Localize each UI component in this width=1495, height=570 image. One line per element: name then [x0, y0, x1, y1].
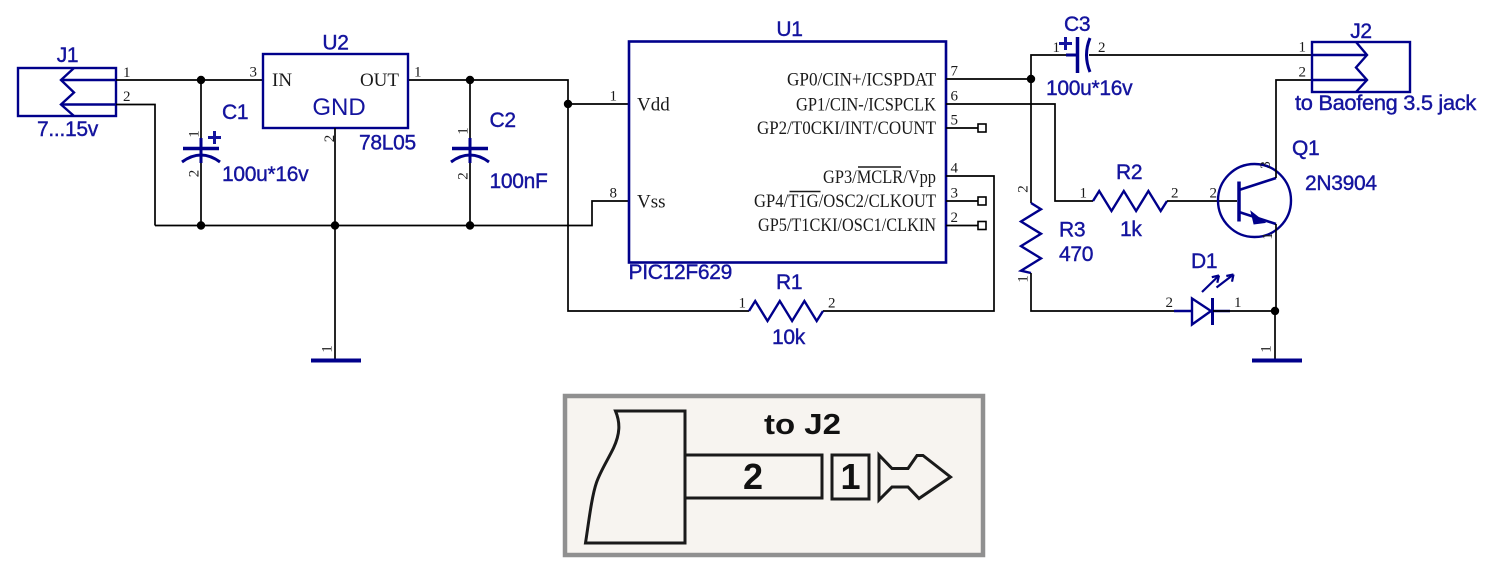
svg-text:1: 1: [1234, 295, 1242, 311]
svg-text:D1: D1: [1191, 250, 1217, 273]
svg-text:2: 2: [1171, 186, 1179, 202]
node junction J1/C1 top: [197, 76, 205, 84]
svg-text:2N3904: 2N3904: [1305, 172, 1377, 195]
jack tip: [879, 455, 951, 500]
svg-text:10k: 10k: [772, 326, 806, 349]
svg-text:1: 1: [456, 127, 472, 135]
svg-text:R2: R2: [1116, 161, 1142, 184]
wire branch to Vdd: [568, 103, 629, 105]
svg-text:GP0/CIN+/ICSPDAT: GP0/CIN+/ICSPDAT: [787, 70, 936, 91]
svg-text:Q1: Q1: [1292, 137, 1319, 160]
transistor Q1: [1218, 137, 1319, 237]
svg-text:1: 1: [1016, 275, 1032, 283]
LED D1: [1174, 250, 1234, 325]
svg-text:IN: IN: [272, 70, 292, 91]
svg-text:2: 2: [743, 456, 763, 497]
capacitor C2: [451, 80, 516, 226]
jack sleeve segment 2: [685, 455, 822, 498]
wire U1 pin6: [946, 104, 1093, 201]
wire U1 pin2 no-connect: [946, 225, 978, 227]
svg-text:Vdd: Vdd: [637, 95, 670, 116]
svg-text:R3: R3: [1059, 219, 1085, 242]
wire U1 pin7: [946, 78, 1031, 80]
ground symbol right: [1252, 359, 1302, 363]
node junction pin7/C3/R3: [1027, 75, 1035, 83]
resistor R2: [1093, 161, 1167, 211]
wire J1.1 to U2.IN: [116, 79, 263, 81]
svg-text:1: 1: [739, 296, 747, 312]
svg-text:1k: 1k: [1120, 218, 1142, 241]
svg-text:2: 2: [123, 89, 131, 105]
inset box jack drawing: [565, 396, 983, 555]
wire R3 top: [1030, 79, 1032, 203]
svg-text:3: 3: [951, 186, 959, 202]
svg-text:1: 1: [1053, 40, 1061, 56]
svg-text:2: 2: [456, 172, 472, 180]
svg-text:2: 2: [1166, 295, 1174, 311]
wire to capacitor C3: [1031, 55, 1073, 79]
svg-text:GP2/T0CKI/INT/COUNT: GP2/T0CKI/INT/COUNT: [757, 118, 936, 139]
svg-text:3: 3: [250, 65, 258, 81]
svg-text:2: 2: [1016, 185, 1032, 193]
svg-text:8: 8: [610, 186, 618, 202]
jack ring segment 1: [832, 455, 869, 499]
svg-text:R1: R1: [776, 271, 802, 294]
svg-text:GP5/T1CKI/OSC1/CLKIN: GP5/T1CKI/OSC1/CLKIN: [758, 215, 936, 236]
svg-text:100nF: 100nF: [490, 170, 548, 193]
svg-text:2: 2: [187, 170, 203, 178]
svg-text:J2: J2: [1350, 20, 1372, 43]
wire U1 pin5 no-connect: [946, 127, 978, 129]
wire D1 to emitter node: [1213, 310, 1275, 312]
IC U1 PIC12F629: [629, 18, 946, 263]
node junction Vdd branch: [564, 100, 572, 108]
jack plug body: [586, 411, 686, 543]
svg-text:100u*16v: 100u*16v: [222, 163, 309, 186]
node junction C2 top: [466, 76, 474, 84]
wire Q1 emitter down: [1275, 224, 1277, 311]
svg-text:GP1/CIN-/ICSPCLK: GP1/CIN-/ICSPCLK: [796, 95, 936, 116]
svg-text:1: 1: [123, 65, 131, 81]
wire R3 bottom to D1: [1031, 273, 1190, 311]
svg-text:to Baofeng 3.5 jack: to Baofeng 3.5 jack: [1295, 92, 1477, 115]
connector J1: [18, 44, 116, 116]
wire R2 to Q1 base: [1167, 200, 1237, 202]
svg-text:4: 4: [951, 161, 959, 177]
regulator U2: [263, 32, 408, 129]
node junction emitter/D1/ground: [1271, 307, 1279, 315]
svg-text:J1: J1: [57, 44, 79, 67]
connector J2: [1312, 20, 1410, 92]
svg-text:PIC12F629: PIC12F629: [629, 261, 733, 284]
svg-text:5: 5: [951, 113, 959, 129]
ground symbol left: [311, 359, 361, 363]
node junction C2 bottom: [466, 221, 474, 229]
capacitor C3: [1059, 13, 1090, 73]
capacitor C1: [182, 80, 248, 226]
svg-text:C3: C3: [1064, 13, 1090, 36]
wire U2 GND pin down: [334, 128, 336, 361]
svg-text:2: 2: [1210, 186, 1218, 202]
wire U2.OUT to Vdd and R1: [409, 80, 749, 311]
wire J1.2 down to ground rail: [116, 105, 155, 226]
svg-text:1: 1: [840, 456, 860, 497]
svg-text:GP3/MCLR/Vpp: GP3/MCLR/Vpp: [823, 167, 936, 188]
svg-text:470: 470: [1059, 243, 1093, 266]
svg-text:Vss: Vss: [637, 192, 666, 213]
svg-text:1: 1: [187, 130, 203, 138]
svg-text:100u*16v: 100u*16v: [1046, 77, 1133, 100]
svg-text:1: 1: [1259, 345, 1275, 353]
svg-text:C2: C2: [490, 109, 516, 132]
svg-text:1: 1: [1260, 232, 1276, 240]
svg-text:1: 1: [1299, 40, 1307, 56]
wire U1 pin3 no-connect: [946, 200, 978, 202]
svg-text:1: 1: [610, 89, 618, 105]
svg-text:to J2: to J2: [764, 409, 841, 441]
svg-text:1: 1: [320, 345, 336, 353]
svg-text:U1: U1: [776, 18, 802, 41]
svg-text:U2: U2: [322, 32, 348, 55]
svg-text:2: 2: [951, 210, 959, 226]
svg-text:3: 3: [1258, 161, 1274, 169]
svg-text:78L05: 78L05: [359, 132, 416, 155]
svg-text:GND: GND: [312, 94, 365, 121]
wire Q1 collector to J2 pin2: [1276, 80, 1312, 178]
wire U1 pin4 to R1: [823, 176, 994, 311]
svg-text:GP4/T1G/OSC2/CLKOUT: GP4/T1G/OSC2/CLKOUT: [754, 191, 936, 212]
svg-text:2: 2: [828, 296, 836, 312]
svg-text:2: 2: [1299, 65, 1307, 81]
svg-text:6: 6: [951, 89, 959, 105]
svg-text:C1: C1: [222, 101, 248, 124]
wire C3 to J2 pin1: [1089, 54, 1312, 56]
svg-text:7: 7: [951, 64, 959, 80]
node junction C1 bottom: [197, 221, 205, 229]
svg-text:OUT: OUT: [360, 70, 399, 91]
svg-text:2: 2: [1098, 40, 1106, 56]
svg-text:1: 1: [414, 65, 422, 81]
svg-text:1: 1: [1080, 186, 1088, 202]
resistor R1: [749, 271, 823, 321]
node junction U2 gnd / rail: [331, 221, 339, 229]
wire ground rail: [155, 201, 629, 226]
svg-text:7...15v: 7...15v: [37, 118, 99, 141]
resistor R3: [1021, 203, 1085, 273]
wire to right ground: [1274, 311, 1276, 360]
